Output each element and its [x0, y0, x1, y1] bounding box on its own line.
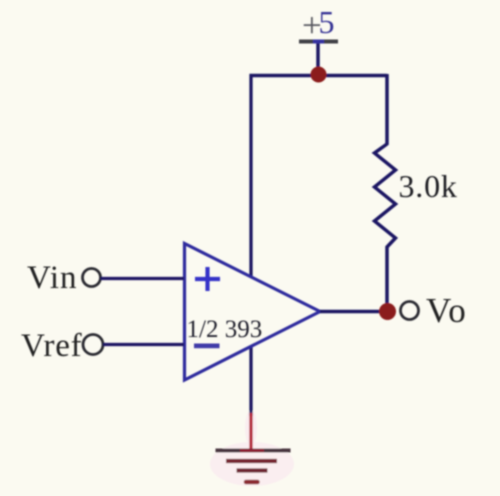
- svg-text:Vref: Vref: [21, 328, 82, 364]
- svg-text:1/2 393: 1/2 393: [187, 316, 263, 343]
- svg-text:5: 5: [319, 4, 335, 40]
- svg-text:3.0k: 3.0k: [399, 168, 458, 204]
- svg-text:Vin: Vin: [27, 260, 78, 296]
- svg-text:Vo: Vo: [426, 291, 467, 330]
